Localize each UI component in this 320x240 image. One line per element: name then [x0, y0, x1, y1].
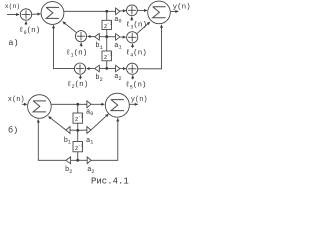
coefficient a1 triangle: [116, 34, 120, 41]
noise source f2(n) stub arrow: [79, 75, 81, 79]
wire b2 to adder F2: [87, 68, 95, 70]
svg-text:y(n): y(n): [173, 4, 191, 12]
noise source f3(n) stub arrow: [131, 17, 133, 21]
delay Z4 (z^-1): [73, 142, 84, 152]
junction J2: [105, 35, 108, 38]
wire J3 to b2 triangle: [99, 67, 106, 69]
wire Z2 to J3: [106, 61, 108, 69]
wire J1 down to delay Z1: [106, 11, 108, 20]
wire Z4 to J6: [77, 152, 79, 161]
noise source f0(n) stub arrow: [25, 21, 27, 25]
svg-text:b1: b1: [64, 137, 71, 146]
svg-text:ℓ2(n): ℓ2(n): [67, 80, 88, 90]
svg-text:a1: a1: [86, 137, 93, 146]
delay Z2 (z^-1): [102, 51, 113, 61]
adder F2: [74, 63, 85, 74]
coefficient a0 triangle (diagram b): [87, 101, 91, 108]
coefficient a0 triangle: [116, 8, 120, 15]
wire F1 output diagonal to S1: [63, 22, 77, 33]
adder F4: [127, 32, 138, 43]
svg-text:б): б): [8, 126, 18, 136]
wire S3 output to a0 triangle (diagram b): [51, 103, 87, 105]
coefficient b2 triangle (points left): [95, 65, 100, 72]
wire J4 down to delay Z3: [77, 104, 79, 113]
summer S1 (left sigma, diagram a): [41, 2, 64, 25]
adder F1: [75, 31, 86, 42]
wire F4 output diagonal to S2: [137, 22, 150, 34]
junction J1: [105, 10, 108, 13]
wire b1 to adder F1: [88, 35, 95, 37]
wire x(n) to adder f0: [7, 14, 19, 16]
svg-text:b1: b1: [95, 42, 102, 51]
wire F3 to summer S2: [137, 9, 147, 11]
coefficient a1 triangle (diagram b): [87, 127, 91, 134]
adder F3: [126, 5, 137, 16]
svg-text:-1: -1: [107, 52, 113, 57]
noise source f4(n) stub arrow: [132, 44, 134, 48]
wire Z3 to J5: [77, 123, 79, 130]
wire J5 to a1 triangle (diagram b): [78, 129, 87, 131]
coefficient b1 triangle (points left): [95, 34, 100, 41]
svg-text:-1: -1: [78, 115, 84, 120]
wire b2 output left and up to S3: [38, 119, 66, 160]
wire a2 output right and up to S4: [91, 118, 118, 160]
wire J3 to a2 triangle: [107, 67, 116, 69]
svg-text:x(n): x(n): [5, 3, 20, 10]
svg-text:a1: a1: [114, 42, 121, 51]
adder F5: [127, 63, 138, 74]
junction J3: [105, 67, 108, 70]
wire a0 to summer S4: [91, 103, 105, 105]
svg-text:x(n): x(n): [8, 96, 25, 104]
delay Z1 (z^-1): [102, 20, 113, 30]
delay Z3 (z^-1): [73, 113, 84, 123]
junction J6: [76, 159, 79, 162]
wire F5 output right and up to S2: [138, 25, 162, 69]
svg-text:ℓ0(n): ℓ0(n): [19, 26, 40, 36]
wire J6 to a2 triangle (diagram b): [78, 159, 87, 161]
svg-text:Рис.4.1: Рис.4.1: [91, 176, 129, 185]
wire J2 down to delay Z2: [106, 37, 108, 51]
noise source f1(n) stub arrow: [80, 43, 82, 47]
svg-text:a2: a2: [114, 73, 121, 82]
summer S4 (right sigma, diagram b): [105, 93, 129, 117]
svg-text:ℓ5(n): ℓ5(n): [125, 81, 146, 91]
wire J2 to a1 triangle: [107, 36, 116, 38]
wire a0 to adder F3: [120, 10, 126, 13]
svg-text:ℓ1(n): ℓ1(n): [66, 49, 87, 59]
summer S2 (right sigma, diagram a): [148, 1, 171, 24]
svg-text:b2: b2: [65, 166, 72, 175]
wire S4 to y(n): [130, 103, 138, 105]
wire Z1 to J2: [106, 30, 108, 37]
svg-text:-1: -1: [107, 21, 113, 26]
coefficient a2 triangle: [116, 65, 120, 72]
wire J2 to b1 triangle: [99, 36, 106, 38]
wire a1 to adder F4: [120, 36, 126, 38]
wire a1 output diagonal to S4: [91, 114, 109, 130]
wire J5 down to delay Z4: [77, 130, 79, 141]
coefficient a2 triangle (diagram b): [87, 157, 91, 164]
svg-text:ℓ4(n): ℓ4(n): [126, 48, 147, 58]
svg-text:-1: -1: [78, 143, 84, 148]
junction J4: [76, 103, 79, 106]
coefficient b2 triangle (diagram b, points left): [66, 157, 71, 164]
wire b1 output diagonal to S3: [48, 116, 66, 130]
junction J5: [76, 129, 79, 132]
wire J6 to b2 triangle (diagram b): [71, 159, 78, 161]
wire J5 to b1 triangle (diagram b): [70, 129, 78, 131]
coefficient b1 triangle (diagram b, points left): [66, 127, 70, 134]
svg-text:a2: a2: [87, 166, 94, 175]
svg-text:a0: a0: [86, 108, 93, 117]
svg-text:y(n): y(n): [131, 96, 148, 104]
svg-text:a0: a0: [114, 16, 121, 25]
wire x(n) to summer S3: [22, 103, 27, 105]
wire S1 output to a0 triangle: [64, 10, 116, 12]
wire S2 to y(n): [170, 10, 178, 12]
svg-text:b2: b2: [95, 74, 102, 83]
wire adder A0 to summer S1: [32, 13, 41, 15]
svg-text:ℓ3(n): ℓ3(n): [126, 21, 147, 31]
adder A0 (x(n)+f0): [20, 9, 31, 20]
noise source f5(n) stub arrow: [132, 75, 134, 79]
wire a2 to adder F5: [120, 68, 126, 70]
wire F2 output left and up to S1: [54, 25, 75, 68]
summer S3 (left sigma, diagram b): [28, 95, 52, 119]
svg-text:а): а): [8, 38, 18, 48]
